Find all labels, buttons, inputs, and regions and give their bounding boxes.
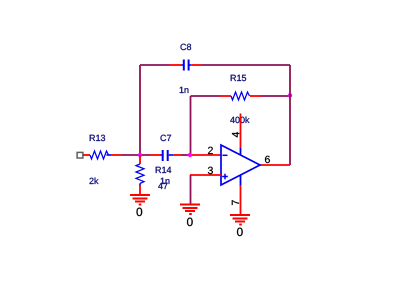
ground G2 — [180, 205, 200, 215]
capacitor C7 — [150, 154, 161, 156]
pin 2 label — [208, 147, 213, 154]
ground G3 label 0 — [237, 228, 243, 237]
op-amp plus symbol — [222, 176, 228, 178]
wire vertical node B to R15 row — [190, 96, 192, 155]
resistor R15 — [191, 95, 221, 97]
ground G2 label 0 — [187, 218, 193, 227]
label R13 — [90, 135, 105, 141]
value 1n (C8) — [180, 87, 189, 93]
op-amp — [221, 145, 260, 185]
value 2k — [90, 178, 99, 185]
pin 6 label — [265, 156, 270, 163]
pin 7 label — [232, 200, 239, 205]
resistor R13 — [90, 151, 109, 159]
op-amp minus symbol — [223, 154, 228, 156]
ground G3 — [230, 215, 250, 225]
pin 3 label — [208, 167, 213, 174]
node A junction dot — [138, 153, 142, 157]
wire pin 3 — [190, 174, 221, 176]
node C junction dot — [288, 93, 292, 97]
wire right vertical (C8/R15 to output) — [289, 65, 291, 165]
wire output pin 6 — [260, 164, 290, 166]
value 1n (C7) — [161, 178, 170, 184]
wire pin 3 vertical to ground G2 — [190, 175, 192, 205]
capacitor C8 — [140, 64, 169, 66]
label R14 — [156, 167, 172, 173]
resistor R14 — [139, 155, 141, 164]
op-amp pin 7 stub — [240, 175, 242, 186]
wire input stub — [83, 154, 90, 156]
label R15 — [231, 75, 246, 81]
wire pin 4 — [240, 114, 242, 149]
label C7 — [161, 135, 172, 141]
label C8 — [181, 44, 192, 50]
value 400k — [230, 117, 249, 124]
pin 4 label — [232, 132, 239, 137]
node B junction dot — [188, 153, 192, 157]
op-amp pin 4 stub — [240, 148, 242, 156]
ground G1 — [130, 195, 150, 205]
value 47 (R14) — [158, 183, 167, 189]
wire C7 to node B — [181, 154, 190, 156]
wire vertical node A to C8 row — [139, 65, 141, 155]
wire pin 7 to ground — [240, 185, 242, 215]
wire R13 to node A — [122, 154, 150, 156]
input terminal square — [77, 152, 83, 158]
wire node B to pin 2 — [192, 154, 221, 156]
ground G1 label 0 — [137, 208, 143, 217]
